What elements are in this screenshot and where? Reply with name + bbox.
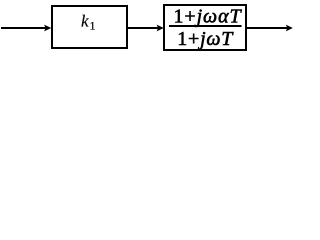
wire: output signal line [247,27,288,29]
svg-text:k: k [81,12,89,31]
wire: between block K1 and block G1 [128,27,159,29]
fraction bar [169,25,242,27]
arrowhead: input into block K1 [44,25,51,32]
svg-text:1+jωT: 1+jωT [177,28,234,50]
wire: input signal line [1,27,47,29]
block K1 (gain) [52,6,127,48]
block G1 (lead-lag transfer function) [164,5,246,50]
svg-text:1+jωαT: 1+jωαT [174,5,243,27]
arrowhead: into block G1 [157,25,164,32]
svg-text:1: 1 [90,19,96,33]
arrowhead: output [286,25,293,32]
